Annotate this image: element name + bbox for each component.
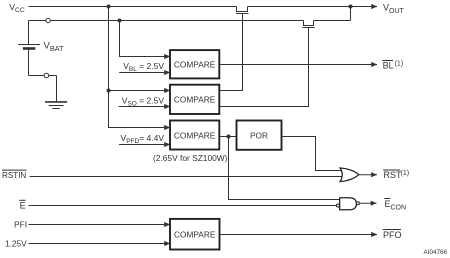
wire 1.25V to compare4 bbox=[29, 243, 171, 245]
wire PFI to compare4 bbox=[29, 224, 171, 226]
and-gate G2 output bubble bbox=[356, 202, 359, 205]
transistor Q1 channel trench bbox=[237, 7, 248, 12]
ground bbox=[45, 101, 67, 103]
svg-text:(1): (1) bbox=[401, 170, 410, 177]
svg-text:VBAT: VBAT bbox=[44, 41, 65, 54]
node VOUT label bbox=[383, 3, 405, 16]
svg-text:RSTIN: RSTIN bbox=[2, 171, 26, 180]
wire Q2 gate to compare2 output bbox=[220, 28, 309, 107]
wire RSTIN to OR gate bbox=[30, 176, 343, 178]
wire compare1 output to BL bbox=[220, 64, 378, 66]
node PFI label bbox=[14, 219, 27, 229]
wire compare4 output to PFO bbox=[220, 234, 378, 236]
wire vertical B to compare1 bbox=[120, 21, 171, 57]
wire E to AND gate bbox=[29, 205, 337, 207]
or-gate G1 bbox=[340, 168, 359, 182]
svg-text:COMPARE: COMPARE bbox=[174, 60, 216, 70]
svg-text:PFI: PFI bbox=[14, 219, 27, 229]
node BL label bbox=[382, 61, 403, 71]
wire AND output to ECON bbox=[359, 202, 376, 204]
node RSTIN label bbox=[2, 170, 27, 180]
node VCC label bbox=[9, 2, 25, 14]
svg-text:CON: CON bbox=[391, 205, 407, 212]
wire VCC rail bbox=[29, 6, 351, 8]
wire vertical A (VCC sense) bbox=[109, 7, 171, 128]
node ECON label bbox=[384, 199, 406, 212]
svg-text:VBL = 2.5V: VBL = 2.5V bbox=[123, 61, 164, 73]
junction dot B bbox=[118, 19, 122, 23]
wire battery negative to ground bbox=[29, 76, 57, 102]
value label VBL bbox=[123, 61, 164, 73]
comparator U3 (power fail detect) bbox=[170, 121, 219, 150]
node E label bbox=[19, 200, 25, 210]
battery VBAT bbox=[28, 21, 30, 45]
node RST label bbox=[383, 170, 409, 180]
switch contact circle S2 bbox=[44, 73, 49, 78]
transistor Q2 gate bar bbox=[303, 27, 315, 29]
wire compare3 output to POR bbox=[220, 136, 237, 138]
node PFO label bbox=[383, 230, 402, 241]
value label VPFD bbox=[121, 133, 165, 145]
wire VPFD reference bbox=[119, 144, 170, 146]
svg-text:VOUT: VOUT bbox=[383, 3, 405, 16]
value label VSO bbox=[122, 96, 165, 108]
svg-text:RST: RST bbox=[384, 170, 403, 180]
junction dot A2 bbox=[107, 89, 111, 93]
svg-text:BL: BL bbox=[383, 61, 394, 71]
junction dot VCC-A bbox=[107, 5, 111, 9]
wire compare3 to AND gate bbox=[229, 137, 340, 200]
svg-text:PFO: PFO bbox=[383, 230, 402, 240]
comparator U5 (power fail input) bbox=[170, 219, 220, 250]
svg-text:VPFD= 4.4V: VPFD= 4.4V bbox=[121, 133, 165, 145]
junction dot VCC-VOUT bbox=[349, 5, 353, 9]
svg-text:(1): (1) bbox=[395, 61, 404, 68]
wire VBL reference bbox=[119, 72, 170, 74]
wire POR output to OR gate bbox=[282, 137, 343, 171]
transistor Q1 gate bar bbox=[236, 13, 249, 15]
svg-text:1.25V: 1.25V bbox=[5, 238, 27, 248]
and-gate G2 bbox=[340, 198, 357, 210]
wire OR output to RST bbox=[359, 174, 377, 176]
wire A branch to compare2 bbox=[109, 90, 171, 92]
svg-text:COMPARE: COMPARE bbox=[174, 95, 216, 105]
battery VBAT label bbox=[44, 41, 65, 54]
comparator U2 (supply ok) bbox=[170, 85, 219, 114]
wire Q1 gate to compare2 output bbox=[220, 14, 243, 91]
node 1.25V label bbox=[5, 238, 27, 248]
svg-text:(2.65V for SZ100W): (2.65V for SZ100W) bbox=[153, 153, 228, 163]
and-gate G2 input bubble bbox=[336, 204, 339, 207]
svg-text:E: E bbox=[20, 200, 26, 210]
wire VSO reference bbox=[119, 106, 170, 108]
POR block U4 bbox=[237, 121, 282, 150]
figure number AI04766 bbox=[424, 249, 448, 256]
value note 2.65V bbox=[153, 153, 228, 163]
wire switched battery rail bbox=[29, 7, 351, 21]
comparator U1 (battery low) bbox=[170, 50, 219, 78]
wire VCC to VOUT arrow bbox=[351, 6, 378, 8]
svg-text:VSO = 2.5V: VSO = 2.5V bbox=[122, 96, 165, 108]
svg-text:COMPARE: COMPARE bbox=[174, 130, 216, 140]
svg-text:VCC: VCC bbox=[9, 2, 25, 14]
transistor Q2 channel trench bbox=[304, 21, 314, 26]
junction dot C bbox=[227, 135, 231, 139]
svg-text:COMPARE: COMPARE bbox=[174, 229, 216, 239]
svg-text:AI04766: AI04766 bbox=[424, 249, 448, 256]
switch contact circle S1 bbox=[46, 18, 50, 22]
svg-text:POR: POR bbox=[250, 130, 268, 140]
